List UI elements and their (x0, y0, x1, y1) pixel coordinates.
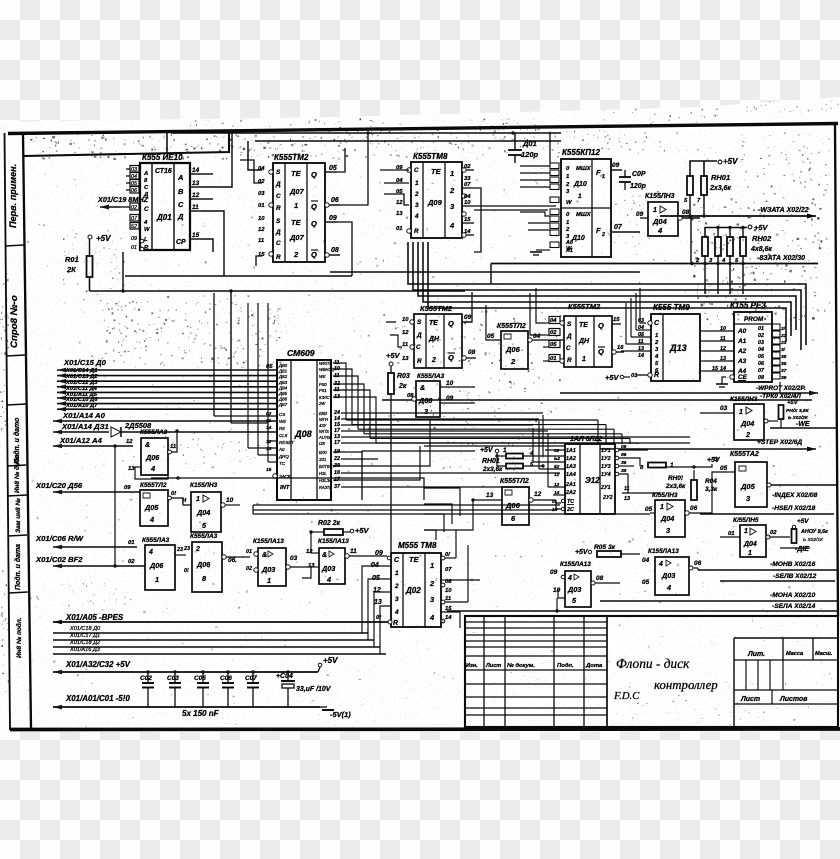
wires D12 left bracket (386, 321, 396, 323)
wire top rail y133 (171, 132, 561, 134)
svg-text:13: 13 (192, 180, 200, 187)
title block revision grid verticals (483, 616, 485, 727)
svg-text:2: 2 (429, 579, 435, 588)
wire clock input (100, 206, 120, 208)
svg-text:3: 3 (415, 202, 419, 209)
wire vertical x491 down from -VDATA line (490, 264, 492, 285)
svg-text:06: 06 (690, 505, 698, 512)
svg-text:11: 11 (350, 548, 357, 555)
svg-text:2: 2 (449, 186, 455, 195)
svg-text:03: 03 (720, 405, 728, 412)
svg-text:2: 2 (431, 357, 436, 364)
svg-text:13: 13 (486, 492, 494, 499)
svg-text:С05: С05 (194, 675, 206, 682)
svg-text:08: 08 (596, 575, 604, 582)
wire D10 inputs from bus left (520, 165, 550, 167)
svg-text:РН/Х 3,6К: РН/Х 3,6К (786, 408, 810, 414)
wire bundle across schematic y272-308 (330, 271, 640, 273)
drawing frame border right (835, 124, 838, 616)
svg-text:02: 02 (258, 179, 265, 185)
svg-text:РS1: РS1 (319, 388, 327, 393)
svg-text:С: С (144, 206, 149, 213)
svg-text:09: 09 (464, 314, 472, 321)
svg-text:Х01/А14 ДЗ1: Х01/А14 ДЗ1 (61, 422, 109, 431)
wires D06.8 to D03.1 (226, 556, 250, 558)
wire D06.4 output up to D31 line (168, 450, 172, 454)
svg-text:-МОНВ Х02/16: -МОНВ Х02/16 (770, 561, 816, 568)
svg-text:R: R (417, 358, 422, 365)
svg-text:-НSЕЛ Х02/18: -НSЕЛ Х02/18 (772, 505, 816, 512)
svg-text:1У2: 1У2 (601, 456, 611, 462)
svg-text:1: 1 (196, 496, 200, 503)
svg-text:+5V: +5V (797, 518, 809, 525)
svg-text:2к: 2к (398, 383, 407, 390)
wires below D08 long y505-514 (253, 504, 560, 506)
wire D05.4 output to D04.5 input (168, 496, 172, 500)
svg-text:Д09: Д09 (427, 198, 443, 207)
svg-text:33,uF /10V: 33,uF /10V (296, 686, 332, 693)
svg-text:3: 3 (424, 407, 428, 416)
svg-text:02: 02 (131, 205, 137, 211)
svg-text:R: R (414, 228, 419, 235)
svg-text:К155ЛН3: К155ЛН3 (190, 482, 218, 489)
svg-text:-WЗАТА Х02/22: -WЗАТА Х02/22 (758, 207, 809, 214)
svg-text:37: 37 (334, 484, 341, 490)
svg-text:Q: Q (598, 347, 604, 356)
svg-text:ТЕ: ТЕ (291, 169, 302, 178)
svg-text:09: 09 (375, 550, 383, 557)
svg-text:МШХ: МШХ (576, 212, 592, 218)
wires D13 inputs from bundle (640, 288, 646, 323)
wire D06.2 input from bundle (486, 305, 493, 340)
svg-text:А0: А0 (565, 240, 573, 246)
svg-text:К555ТМ2: К555ТМ2 (274, 153, 309, 162)
svg-text:S: S (276, 169, 281, 176)
svg-text:38: 38 (621, 468, 627, 474)
vertical wire x550 from top (549, 133, 551, 163)
svg-text:11: 11 (258, 238, 264, 244)
svg-text:Д: Д (416, 332, 422, 339)
svg-text:2К: 2К (66, 265, 77, 274)
svg-text:08: 08 (331, 247, 339, 254)
svg-text:С: С (416, 344, 421, 351)
signal -MONA X02/10 (600, 600, 838, 602)
svg-text:Д04: Д04 (743, 541, 757, 548)
svg-text:К155ЛА13: К155ЛА13 (648, 548, 679, 555)
svg-text:1: 1 (653, 207, 657, 214)
svg-text:Д05: Д05 (144, 503, 159, 512)
svg-text:08: 08 (758, 375, 764, 381)
svg-text:10: 10 (464, 200, 471, 206)
svg-text:4: 4 (654, 354, 659, 360)
svg-text:03: 03 (758, 340, 764, 346)
svg-text:120р: 120р (521, 150, 538, 159)
svg-text:КЗЛСТ: КЗЛСТ (319, 395, 332, 400)
svg-text:Х01/С15 Д0: Х01/С15 Д0 (63, 358, 107, 367)
svg-text:05: 05 (550, 342, 557, 348)
nested corner wires lower left of E12 (424, 488, 460, 516)
svg-text:К555ТЛ2: К555ТЛ2 (497, 323, 526, 330)
D10 output pin 07 F2 (611, 231, 640, 233)
svg-text:WЕ: WЕ (279, 419, 287, 424)
wire x456 vertical above D02 (455, 530, 457, 558)
svg-text:4: 4 (150, 464, 155, 473)
svg-text:4: 4 (666, 583, 671, 592)
svg-text:&: & (322, 552, 327, 559)
svg-text:Д04: Д04 (660, 514, 674, 523)
svg-text:36: 36 (781, 361, 787, 367)
title block лит mini cells (745, 660, 747, 690)
svg-text:13: 13 (396, 211, 403, 217)
wire bundle y420-443 to right (346, 419, 598, 421)
svg-text:02: 02 (770, 530, 777, 536)
svg-text:03: 03 (258, 191, 265, 197)
resistor R8-1 horizontal at D04.3 (648, 463, 666, 468)
svg-text:Q: Q (448, 353, 454, 362)
svg-text:ДН: ДН (428, 336, 440, 343)
wire left bracket to D07 (240, 160, 262, 183)
svg-text:04: 04 (642, 557, 650, 564)
svg-text:СLК: СLК (279, 433, 288, 438)
svg-text:4х8,6к: 4х8,6к (750, 246, 772, 253)
wire horizontal rail y291 (90, 290, 466, 292)
svg-text:К/55ЛН5: К/55ЛН5 (733, 517, 759, 524)
svg-text:11: 11 (445, 596, 451, 602)
svg-text:Д03: Д03 (567, 585, 581, 594)
svg-text:А2: А2 (737, 348, 747, 355)
svg-text:12: 12 (402, 330, 409, 336)
svg-text:+5V: +5V (575, 549, 589, 556)
svg-text:2: 2 (414, 191, 419, 198)
svg-text:Д01: Д01 (156, 213, 172, 222)
svg-text:F.D.C: F.D.C (613, 690, 640, 702)
svg-text:1: 1 (415, 180, 419, 187)
svg-text:ДН: ДН (578, 338, 590, 345)
-5V bottom rail (53, 706, 320, 708)
svg-text:ДRQ: ДRQ (278, 454, 289, 459)
svg-text:С: С (414, 167, 419, 174)
svg-text:1А1: 1А1 (566, 448, 576, 454)
svg-text:10: 10 (445, 588, 452, 594)
svg-text:10: 10 (258, 216, 265, 222)
svg-text:2х3,6к: 2х3,6к (665, 483, 686, 490)
title block right section (733, 638, 735, 727)
left margin column divider y404 (7, 404, 26, 405)
svg-text:1: 1 (294, 201, 298, 210)
svg-text:R: R (276, 254, 281, 261)
svg-text:2А2: 2А2 (565, 490, 576, 496)
svg-text:13: 13 (402, 356, 409, 362)
scan noise speckles (166, 147, 168, 148)
wires into E12 left (545, 449, 565, 451)
drawing frame border bottom (10, 727, 840, 731)
title block name cell divider (606, 616, 608, 727)
svg-text:IЗК: IЗК (319, 441, 326, 446)
svg-text:2: 2 (394, 583, 399, 590)
svg-text:1: 1 (655, 333, 658, 339)
wire loop from D06.6 input down (424, 500, 473, 530)
svg-text:2С: 2С (566, 507, 574, 513)
svg-text:-8ЗАТА Х02/30: -8ЗАТА Х02/30 (757, 255, 805, 262)
svg-text:02: 02 (758, 333, 764, 339)
svg-text:04: 04 (258, 166, 265, 172)
svg-text:Х01/А12 А4: Х01/А12 А4 (59, 436, 103, 445)
wire from D03.5 area down (556, 598, 558, 611)
svg-text:-МОНА Х02/10: -МОНА Х02/10 (770, 592, 816, 599)
svg-text:WЕ: WЕ (319, 374, 326, 379)
svg-text:Ин8 № дубл.: Ин8 № дубл. (13, 453, 21, 493)
svg-text:13: 13 (374, 599, 382, 606)
svg-text:RЕSЕТ: RЕSЕТ (279, 440, 294, 445)
svg-text:1: 1 (155, 575, 159, 584)
svg-text:07: 07 (131, 216, 138, 222)
svg-text:W: W (144, 227, 150, 233)
capacitor C02 120p (624, 170, 626, 177)
svg-text:Q: Q (448, 319, 454, 328)
svg-text:Х01/А32/С32 +5V: Х01/А32/С32 +5V (65, 660, 131, 669)
svg-text:15: 15 (712, 366, 719, 372)
svg-text:4: 4 (148, 549, 153, 556)
signal -WE (770, 427, 838, 429)
svg-text:С: С (178, 200, 184, 209)
svg-text:К155ЛА13: К155ЛА13 (560, 561, 591, 568)
svg-text:15: 15 (613, 317, 620, 323)
wire vertical x231 (230, 291, 232, 395)
svg-text:&: & (420, 385, 425, 392)
svg-text:-ТРК0 Х02/4Л: -ТРК0 Х02/4Л (760, 393, 801, 400)
signal line -TRKO X02/4 (382, 399, 812, 401)
wire R01 to rail (89, 277, 91, 291)
svg-text:С0Р: С0Р (632, 171, 646, 178)
svg-text:К555ЛА3: К555ЛА3 (140, 429, 168, 436)
svg-text:02: 02 (550, 330, 557, 336)
svg-text:Х01/С20 Д56: Х01/С20 Д56 (35, 481, 83, 490)
wires D13 to D14 address lines (700, 330, 704, 332)
svg-text:2: 2 (510, 357, 516, 366)
left margin column divider y593 (9, 592, 29, 593)
data bus lines into D08 (57, 369, 277, 371)
svg-text:К555ЛА3: К555ЛА3 (142, 537, 170, 544)
svg-text:RН01: RН01 (711, 173, 730, 182)
+5V feed line (53, 671, 318, 673)
svg-text:Д02: Д02 (405, 586, 421, 595)
svg-text:Д10: Д10 (573, 181, 587, 188)
svg-text:Д: Д (177, 212, 184, 221)
svg-text:К555ТМ2: К555ТМ2 (568, 302, 601, 311)
svg-text:R: R (276, 205, 281, 212)
svg-text:Лист: Лист (740, 696, 760, 703)
svg-text:С: С (276, 193, 281, 200)
svg-text:RН0!: RН0! (668, 475, 684, 482)
wire signal -VDATA X02/30 (491, 263, 818, 265)
svg-text:13: 13 (308, 563, 315, 569)
svg-text:4: 4 (657, 226, 663, 235)
signal -SELA X02/14 (447, 610, 838, 612)
wire y276 long (125, 275, 352, 277)
svg-text:4: 4 (326, 575, 331, 584)
svg-text:В: В (178, 187, 184, 196)
svg-text:4: 4 (429, 613, 435, 622)
svg-text:Д08: Д08 (294, 429, 313, 439)
resistor R04 3.3k (691, 480, 697, 500)
svg-text:37: 37 (781, 368, 787, 374)
svg-text:Д85: Д85 (278, 391, 288, 396)
resistor RN 3.6k at D04.2 output (768, 420, 778, 422)
svg-text:2W: 2W (318, 401, 326, 406)
svg-text:К555ЛА3: К555ЛА3 (190, 533, 218, 540)
signal -HSEL X02/18 (700, 513, 834, 515)
svg-text:0!: 0! (184, 568, 189, 574)
svg-text:ТЕ: ТЕ (429, 320, 438, 327)
svg-text:ВКВ: ВКВ (319, 411, 327, 416)
svg-text:2А1: 2А1 (565, 482, 576, 488)
svg-text:33: 33 (464, 176, 471, 182)
svg-text:СS: СS (279, 412, 285, 417)
svg-text:Лист: Лист (485, 663, 501, 669)
svg-text:R03: R03 (397, 373, 410, 380)
svg-text:СЕ: СЕ (738, 374, 748, 381)
svg-text:15: 15 (266, 467, 272, 473)
svg-text:01: 01 (258, 203, 265, 209)
svg-text:Д84: Д84 (278, 385, 288, 390)
svg-text:12: 12 (554, 472, 560, 478)
svg-text:Ь Х02/2К: Ь Х02/2К (788, 415, 809, 420)
D01 right pins 14 13 12 11 15 (190, 173, 202, 175)
svg-text:06: 06 (131, 188, 137, 194)
svg-text:R04: R04 (705, 478, 717, 485)
svg-text:-5V(1): -5V(1) (330, 710, 351, 719)
D06.3 outputs (440, 386, 475, 388)
svg-text:12: 12 (373, 587, 381, 594)
svg-text:К155 РЕ3: К155 РЕ3 (730, 301, 766, 310)
svg-text:02: 02 (554, 448, 560, 454)
svg-text:04: 04 (758, 347, 764, 353)
svg-text:1А2: 1А2 (566, 456, 576, 462)
svg-text:Зам ин8 №: Зам ин8 № (15, 498, 22, 533)
svg-text:А1: А1 (737, 338, 747, 345)
svg-text:+5V: +5V (723, 157, 738, 166)
svg-text:14: 14 (266, 425, 272, 431)
wire R02 junction down (310, 532, 312, 553)
svg-text:1: 1 (748, 550, 752, 557)
wire R03 down to D02 area (390, 394, 392, 553)
svg-text:12: 12 (534, 491, 542, 498)
svg-text:К155ЛА13: К155ЛА13 (253, 538, 284, 545)
svg-text:контроллер: контроллер (654, 678, 718, 692)
svg-text:09: 09 (329, 215, 337, 222)
svg-text:Изн.: Изн. (466, 663, 478, 669)
svg-text:А1: А1 (565, 248, 573, 254)
svg-text:01: 01 (758, 326, 764, 332)
svg-text:02: 02 (128, 559, 135, 565)
svg-text:+5V: +5V (96, 234, 111, 243)
D09 right output pins (462, 169, 474, 171)
svg-text:36: 36 (621, 460, 627, 466)
svg-text:А: А (143, 171, 148, 177)
svg-text:0!: 0! (171, 491, 176, 497)
svg-text:15: 15 (464, 217, 471, 223)
svg-text:Х01/А01/С01 -5!0: Х01/А01/С01 -5!0 (65, 694, 130, 703)
svg-text:11: 11 (624, 486, 630, 492)
svg-text:08: 08 (682, 209, 690, 216)
drawing frame border left (23, 134, 31, 728)
svg-text:СТ16: СТ16 (155, 168, 172, 175)
svg-text:22: 22 (333, 456, 340, 462)
svg-text:Q: Q (311, 219, 317, 228)
svg-text:ТЕ: ТЕ (579, 322, 588, 329)
svg-text:Спро8 №-о: Спро8 №-о (9, 295, 20, 348)
svg-text:Д03: Д03 (661, 571, 675, 580)
svg-text:Д06: Д06 (145, 453, 160, 462)
svg-text:L: L (144, 237, 148, 243)
svg-text:Ь2: Ь2 (554, 456, 560, 462)
svg-text:14: 14 (192, 167, 200, 174)
svg-text:06.: 06. (228, 557, 237, 564)
svg-text:Д: Д (566, 333, 572, 340)
svg-text:Д05: Д05 (740, 482, 756, 491)
svg-text:2х3,6к: 2х3,6к (482, 466, 503, 473)
svg-text:13: 13 (128, 466, 135, 472)
svg-text:06: 06 (758, 361, 764, 367)
svg-text:К555ТЛ2: К555ТЛ2 (140, 482, 167, 489)
svg-text:52: 52 (131, 224, 137, 230)
svg-text:09: 09 (621, 444, 627, 450)
svg-text:Подп. и дата: Подп. и дата (14, 544, 22, 590)
wire D01 outputs to right (202, 173, 213, 175)
svg-text:15: 15 (192, 232, 200, 239)
svg-text:2: 2 (565, 227, 570, 233)
svg-text:09: 09 (550, 569, 558, 576)
svg-text:Д80: Д80 (278, 363, 288, 368)
svg-text:F: F (596, 168, 601, 177)
svg-text:35: 35 (781, 354, 787, 360)
svg-text:11: 11 (402, 342, 408, 348)
svg-text:4: 4 (143, 220, 148, 226)
svg-text:Д04: Д04 (196, 508, 210, 517)
svg-text:Д04: Д04 (652, 217, 668, 226)
left margin column divider y245 (6, 245, 25, 246)
svg-text:09: 09 (446, 395, 454, 402)
svg-text:1: 1 (267, 576, 271, 585)
svg-text:07: 07 (445, 567, 452, 573)
svg-text:А0: А0 (278, 447, 285, 452)
wire junction A4 line down to BF2 (114, 446, 116, 566)
svg-text:+5V: +5V (386, 351, 401, 360)
svg-text:Ин8 № подл.: Ин8 № подл. (15, 617, 23, 658)
svg-text:4: 4 (414, 213, 419, 220)
svg-text:Х01/А16 Д3: Х01/А16 Д3 (69, 647, 101, 653)
svg-text:+5V: +5V (323, 656, 338, 665)
D02 outputs right (441, 556, 445, 560)
svg-text:-SЕЛВ Х02/12: -SЕЛВ Х02/12 (773, 573, 817, 580)
svg-text:3: 3 (666, 526, 670, 535)
svg-text:RН02: RН02 (752, 234, 772, 243)
D12 outputs 09 08 (462, 321, 472, 323)
svg-text:Х01/С17 Д1: Х01/С17 Д1 (69, 633, 100, 639)
svg-text:R: R (393, 620, 398, 627)
svg-text:1: 1 (578, 193, 582, 200)
svg-text:Д07: Д07 (289, 233, 305, 242)
wire signal -WDATA X02/22 (689, 195, 691, 216)
svg-text:Д04: Д04 (740, 419, 754, 428)
svg-text:Х01/С19 8МНZ: Х01/С19 8МНZ (97, 195, 149, 204)
svg-text:Масса: Масса (786, 651, 803, 657)
svg-text:05: 05 (372, 575, 380, 582)
svg-text:К555ТМ2: К555ТМ2 (420, 304, 453, 313)
svg-text:Масш.: Масш. (815, 651, 833, 657)
svg-text:3/: 3/ (781, 347, 786, 353)
svg-text:НЗL: НЗL (319, 471, 327, 476)
